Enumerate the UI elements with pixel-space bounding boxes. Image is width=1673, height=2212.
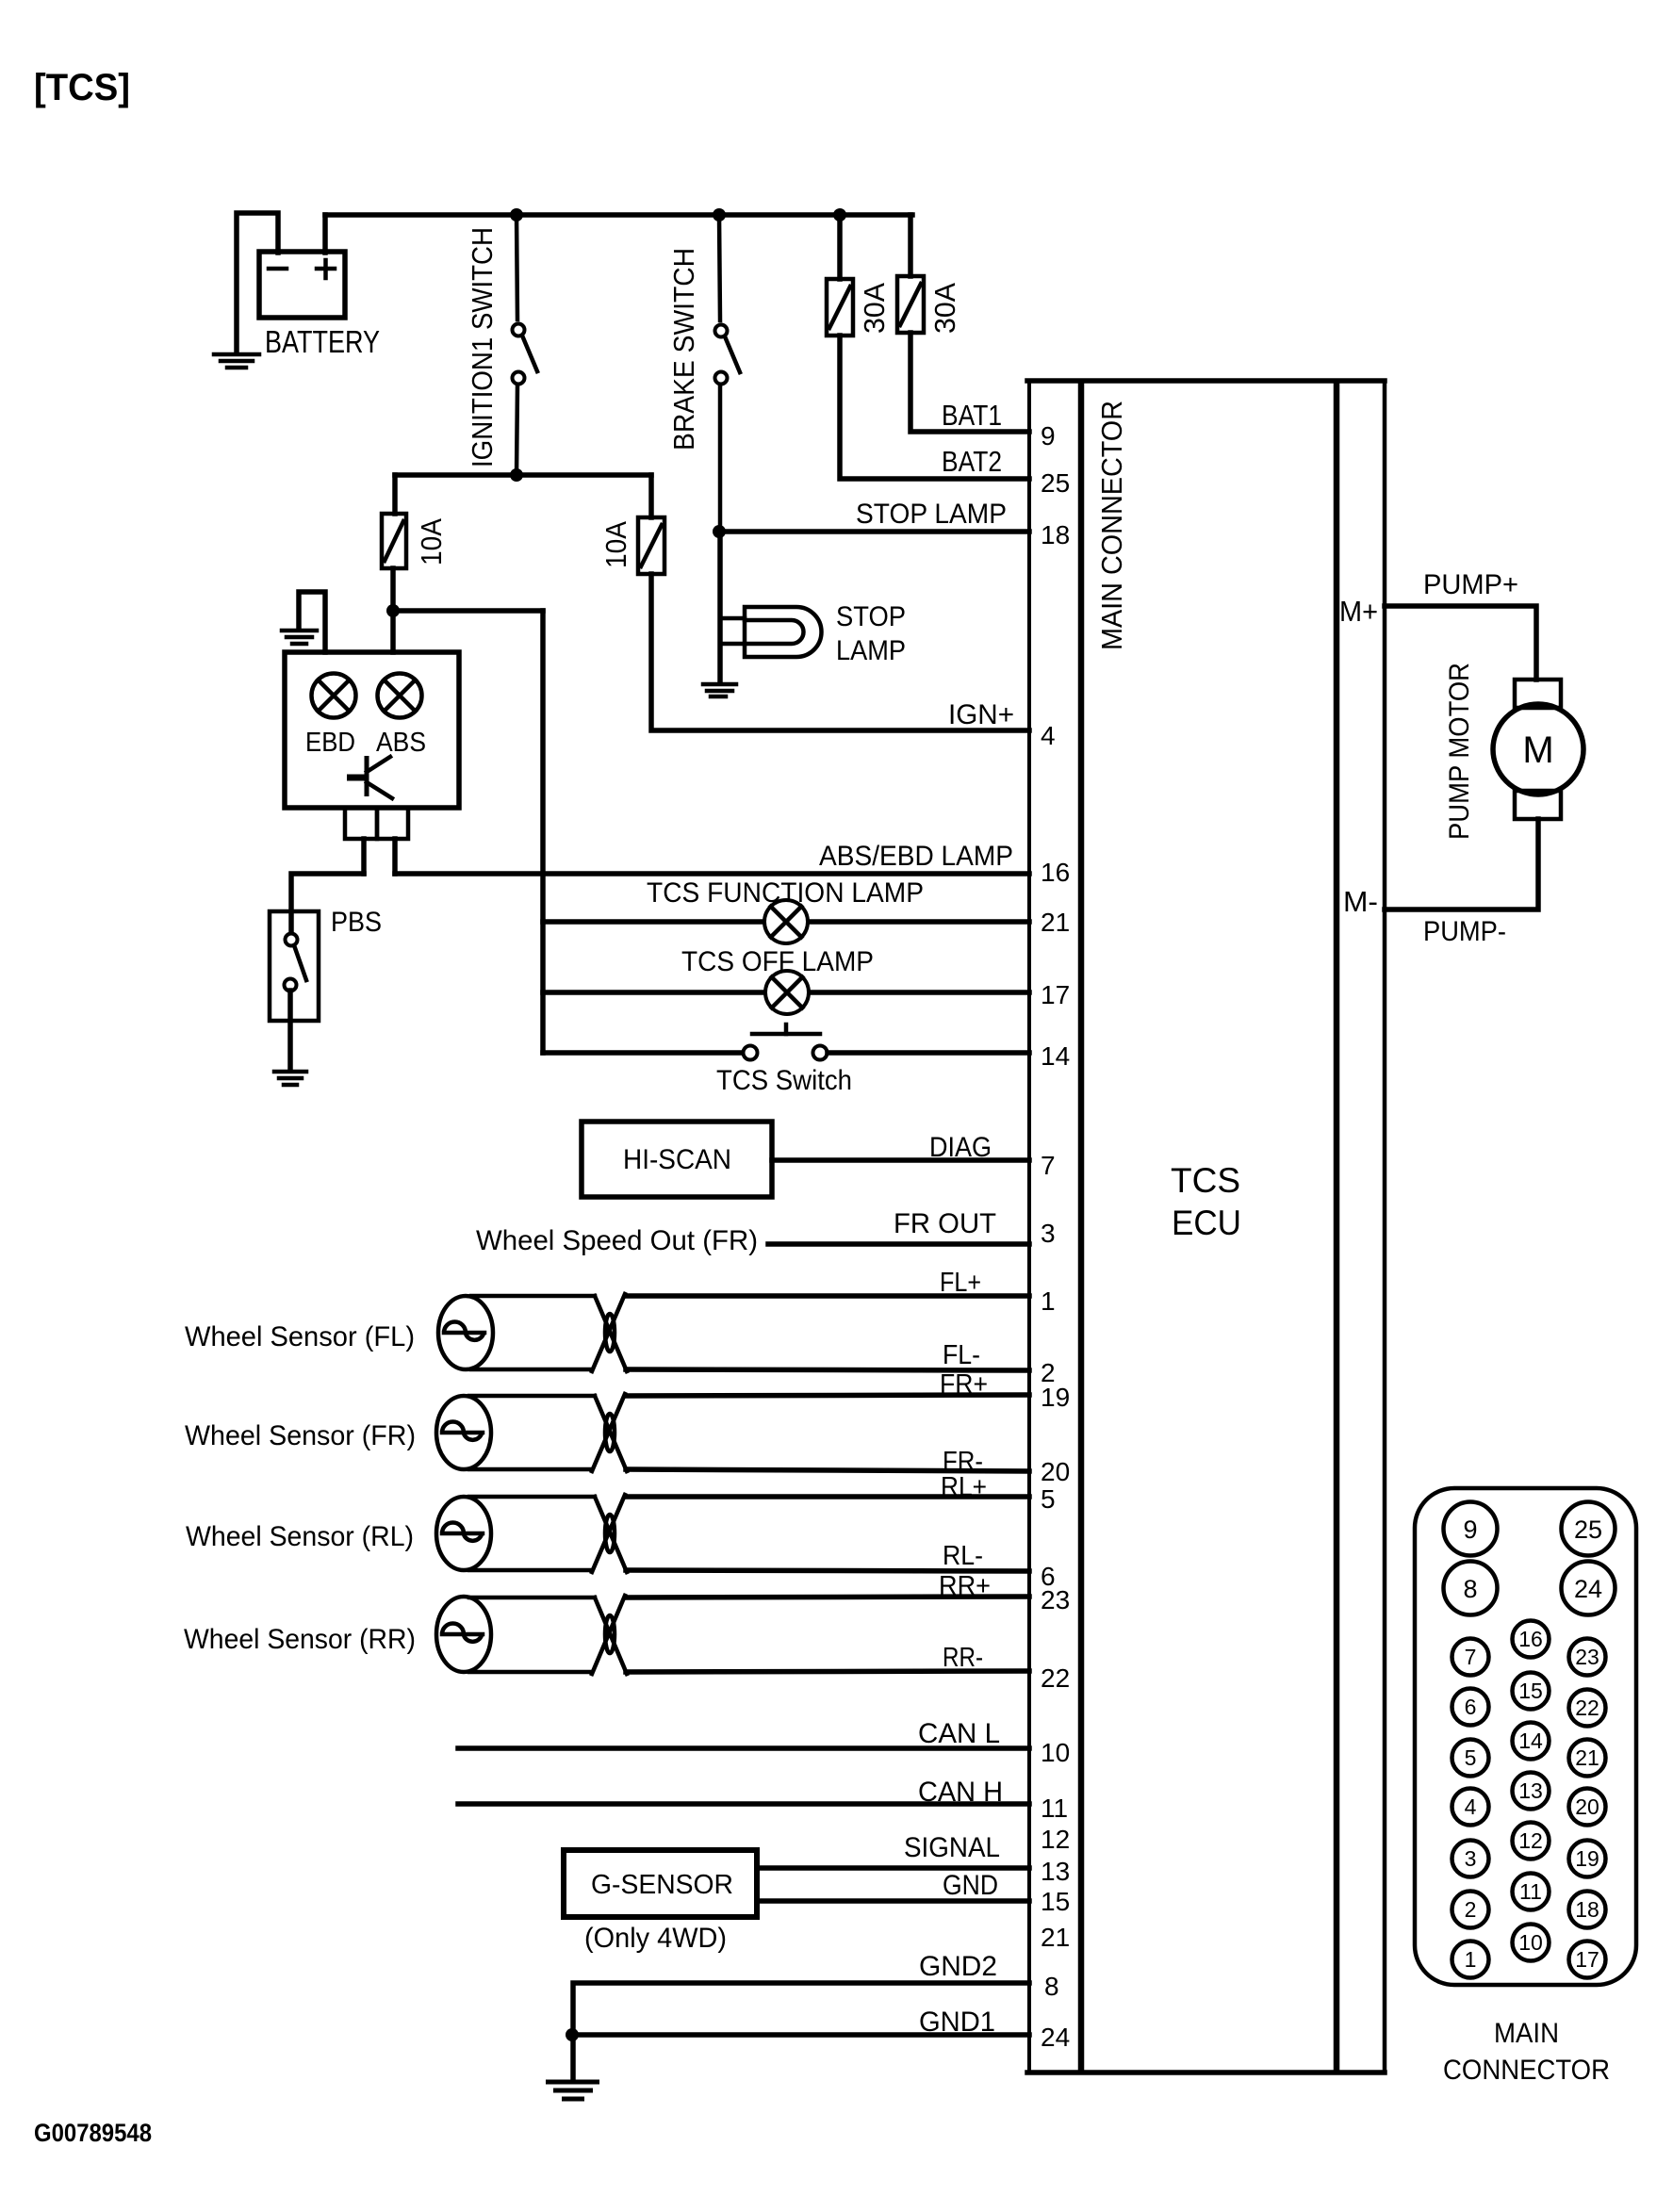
svg-text:30A: 30A [928, 283, 961, 334]
wire BAT2 fuse F1 to pin 25 [840, 336, 1029, 479]
svg-text:Wheel Sensor (FR): Wheel Sensor (FR) [185, 1420, 416, 1451]
svg-text:Wheel Sensor (FL): Wheel Sensor (FL) [185, 1321, 415, 1352]
svg-text:BATTERY: BATTERY [265, 324, 380, 359]
ground (ECU grounds) [546, 2082, 599, 2099]
svg-text:G00789548: G00789548 [34, 2119, 152, 2147]
pinout pin 21 [1569, 1740, 1606, 1777]
wire CAN H to pin 11 [458, 1801, 1029, 1807]
svg-text:4: 4 [1465, 1794, 1477, 1819]
wire fuse F3 to junction [390, 568, 396, 611]
svg-text:10A: 10A [415, 518, 448, 565]
svg-text:25: 25 [1574, 1516, 1602, 1544]
svg-text:BAT1: BAT1 [942, 399, 1002, 432]
junction top rail / brake switch [713, 208, 726, 221]
svg-text:RL-: RL- [943, 1541, 983, 1571]
svg-text:24: 24 [1041, 2023, 1070, 2052]
svg-text:20: 20 [1041, 1457, 1070, 1486]
svg-text:SIGNAL: SIGNAL [904, 1832, 1000, 1863]
svg-text:19: 19 [1575, 1846, 1599, 1871]
svg-text:HI-SCAN: HI-SCAN [623, 1144, 731, 1175]
pinout pin 10 [1513, 1925, 1550, 1961]
stop lamp bulb [745, 607, 822, 657]
junction top rail / ignition switch [510, 208, 523, 221]
svg-text:STOP LAMP: STOP LAMP [856, 499, 1007, 530]
svg-text:BAT2: BAT2 [942, 445, 1002, 478]
svg-text:17: 17 [1041, 980, 1070, 1009]
wire FR- to pin 20 [626, 1469, 1029, 1471]
pinout pin 25 [1562, 1502, 1616, 1556]
pinout pin 5 [1452, 1740, 1489, 1777]
pinout pin 9 [1444, 1502, 1498, 1556]
wire junction into lamp cluster [390, 611, 396, 652]
svg-text:18: 18 [1041, 520, 1070, 549]
wire stop lamp lead top [720, 616, 745, 621]
lamp cluster box [285, 652, 459, 808]
brake switch S2 [715, 215, 741, 532]
svg-text:13: 13 [1518, 1778, 1543, 1803]
svg-text:MAIN CONNECTOR: MAIN CONNECTOR [1095, 401, 1128, 650]
wire ABS/EBD LAMP to pin 16 [395, 871, 1029, 877]
wire top power rail [325, 212, 912, 218]
wire GND1 to pin 24 [572, 2032, 1029, 2038]
wire TCS switch left to pin 14 rail [543, 1050, 744, 1056]
svg-text:GND2: GND2 [919, 1951, 997, 1982]
svg-text:30A: 30A [858, 283, 891, 334]
svg-text:15: 15 [1518, 1679, 1543, 1703]
svg-text:CAN L: CAN L [918, 1718, 1000, 1749]
svg-text:ABS: ABS [376, 728, 426, 758]
wire RL- to pin 6 [626, 1570, 1029, 1571]
svg-text:STOP: STOP [836, 601, 906, 632]
pinout pin 7 [1452, 1639, 1489, 1676]
pinout pin 20 [1569, 1789, 1606, 1826]
svg-text:PUMP MOTOR: PUMP MOTOR [1444, 663, 1475, 840]
wire GND2 to pin 8 [573, 1983, 1029, 2081]
pinout pin 2 [1452, 1892, 1489, 1928]
wire RL+ to pin 5 [626, 1494, 1029, 1499]
pinout pin 13 [1513, 1773, 1550, 1810]
svg-text:CAN H: CAN H [918, 1777, 1003, 1808]
svg-text:MAIN: MAIN [1494, 2018, 1559, 2049]
svg-text:2: 2 [1465, 1897, 1477, 1922]
wire ignition feed rail [395, 472, 651, 478]
wire IGN+ fuse F4 to pin 4 [651, 574, 1029, 730]
svg-text:25: 25 [1041, 468, 1070, 498]
svg-text:Wheel Sensor (RL): Wheel Sensor (RL) [186, 1521, 414, 1552]
wire BAT1 fuse F2 to pin 9 [910, 333, 1029, 432]
svg-text:11: 11 [1041, 1794, 1068, 1823]
svg-text:PUMP+: PUMP+ [1423, 569, 1518, 600]
svg-text:3: 3 [1465, 1846, 1477, 1871]
svg-text:BRAKE SWITCH: BRAKE SWITCH [667, 248, 700, 451]
wire CAN L to pin 10 [458, 1745, 1029, 1751]
lamp ABS (circle with X) [378, 674, 422, 718]
wire FL- to pin 2 [626, 1369, 1029, 1370]
lamp cluster connector pin box left [345, 808, 377, 839]
svg-text:11: 11 [1519, 1879, 1542, 1904]
wire right pin down [392, 839, 398, 874]
svg-text:14: 14 [1518, 1729, 1543, 1753]
svg-text:10: 10 [1518, 1930, 1543, 1955]
wire left pin to PBS [291, 874, 364, 934]
svg-text:EBD: EBD [305, 728, 355, 758]
svg-text:9: 9 [1463, 1516, 1477, 1544]
svg-text:FL-: FL- [943, 1340, 980, 1370]
pinout pin 6 [1452, 1689, 1489, 1726]
pinout pin 24 [1562, 1562, 1616, 1615]
wire FR+ to pin 19 [626, 1395, 1029, 1396]
wire TCS feeder vertical [540, 611, 546, 1053]
svg-text:22: 22 [1575, 1696, 1599, 1720]
svg-text:23: 23 [1041, 1585, 1070, 1614]
wheel sensor (FR) body [436, 1396, 595, 1469]
svg-text:FR OUT: FR OUT [894, 1208, 996, 1239]
svg-text:5: 5 [1465, 1745, 1477, 1770]
wire fuse F1 drop [837, 215, 843, 279]
svg-text:PUMP-: PUMP- [1423, 916, 1506, 947]
svg-text:17: 17 [1575, 1947, 1599, 1972]
wire FL+ to pin 1 [626, 1293, 1029, 1299]
wire pump motor to M- [1385, 819, 1538, 909]
svg-text:16: 16 [1041, 858, 1070, 887]
twisted pair (RL) [592, 1495, 627, 1572]
svg-text:10A: 10A [599, 521, 632, 568]
pinout pin 14 [1513, 1723, 1550, 1760]
svg-text:M+: M+ [1339, 595, 1378, 628]
svg-text:Wheel Sensor (RR): Wheel Sensor (RR) [184, 1624, 416, 1655]
pinout pin 1 [1452, 1942, 1489, 1978]
svg-text:CONNECTOR: CONNECTOR [1443, 2055, 1610, 2086]
svg-text:(Only 4WD): (Only 4WD) [584, 1923, 727, 1954]
svg-text:1: 1 [1465, 1947, 1477, 1972]
svg-text:18: 18 [1575, 1897, 1599, 1922]
twisted pair (RR) [592, 1596, 627, 1674]
G-SENSOR box U3 [564, 1850, 757, 1917]
pinout pin 16 [1513, 1621, 1550, 1658]
svg-text:TCS: TCS [1171, 1161, 1240, 1200]
pump motor M1 [1493, 680, 1583, 819]
pinout pin 12 [1513, 1823, 1550, 1860]
svg-text:M-: M- [1343, 885, 1378, 918]
wire GND to pin 15 [757, 1898, 1029, 1904]
svg-text:14: 14 [1041, 1041, 1070, 1071]
pinout pin 8 [1444, 1562, 1498, 1615]
wire battery positive up [322, 215, 328, 253]
svg-text:4: 4 [1041, 721, 1056, 750]
fuse F3 10A [382, 514, 406, 568]
svg-text:23: 23 [1575, 1645, 1599, 1669]
wire TCS OFF LAMP to pin 17 [543, 990, 1029, 995]
wire M+ to pump motor [1385, 606, 1536, 680]
wire lamp cluster ground hook [299, 592, 325, 652]
pinout pin 15 [1513, 1673, 1550, 1710]
svg-text:M: M [1522, 729, 1553, 771]
svg-text:24: 24 [1574, 1575, 1602, 1603]
svg-text:5: 5 [1041, 1484, 1056, 1514]
battery B1 [259, 252, 345, 318]
wire STOP LAMP node to pin 18 [719, 529, 1029, 534]
svg-text:3: 3 [1041, 1219, 1056, 1248]
fuse F4 10A [638, 517, 664, 574]
svg-text:ABS/EBD LAMP: ABS/EBD LAMP [819, 841, 1013, 872]
junction ignition switch bottom [510, 468, 523, 482]
PBS switch contacts [285, 934, 307, 991]
label STOP LAMP (bulb) [836, 601, 906, 666]
ground (lamp cluster) [282, 631, 317, 644]
pinout pin 17 [1569, 1942, 1606, 1978]
svg-text:6: 6 [1465, 1695, 1477, 1719]
svg-text:10: 10 [1041, 1738, 1070, 1767]
wire PBS to ground [287, 991, 293, 1071]
svg-text:8: 8 [1463, 1575, 1477, 1603]
lamp TCS OFF (circle with X) [765, 971, 809, 1014]
svg-text:22: 22 [1041, 1663, 1070, 1693]
wire TCS switch right to pin 14 [828, 1050, 1029, 1056]
lamp EBD (circle with X) [312, 674, 356, 718]
wire stop lamp branch down [717, 532, 723, 683]
TCS ECU block outline [1027, 381, 1385, 2073]
svg-text:7: 7 [1041, 1151, 1056, 1180]
pinout pin 22 [1569, 1690, 1606, 1727]
main connector pinout drawing [1415, 1488, 1636, 1985]
wire junction to TCS feeder [393, 608, 543, 614]
ground (battery) [214, 354, 259, 368]
svg-text:RR+: RR+ [939, 1571, 991, 1601]
svg-text:RL+: RL+ [941, 1472, 987, 1502]
label TCS ECU [1171, 1161, 1241, 1242]
transistor Q1 (cluster driver) [347, 756, 392, 798]
svg-text:ECU: ECU [1172, 1204, 1241, 1242]
svg-text:G-SENSOR: G-SENSOR [591, 1870, 733, 1900]
svg-text:FL+: FL+ [940, 1268, 981, 1298]
svg-text:LAMP: LAMP [836, 635, 906, 666]
svg-text:21: 21 [1575, 1745, 1599, 1770]
wire FR OUT to pin 3 [768, 1241, 1029, 1247]
wire stop lamp lead bottom [720, 642, 745, 647]
junction top rail / fuse F1 [833, 208, 846, 221]
wheel sensor (RL) body [436, 1497, 595, 1570]
wire feed rail to fuse F3 [392, 475, 398, 514]
svg-text:12: 12 [1518, 1828, 1543, 1853]
svg-text:9: 9 [1041, 421, 1056, 451]
svg-text:15: 15 [1041, 1887, 1070, 1916]
lamp TCS FUNCTION (circle with X) [764, 900, 808, 943]
svg-text:IGNITION1 SWITCH: IGNITION1 SWITCH [466, 227, 499, 467]
ground (stop lamp) [703, 684, 736, 696]
svg-text:8: 8 [1044, 1972, 1059, 2001]
svg-text:1: 1 [1041, 1286, 1056, 1316]
wheel sensor (FL) body [438, 1296, 595, 1369]
svg-text:7: 7 [1465, 1645, 1477, 1669]
PBS box [270, 911, 319, 1021]
junction brake switch / stop lamp node [713, 525, 726, 538]
wire feed rail to fuse F4 [648, 475, 654, 517]
wheel sensor (RR) body [436, 1597, 595, 1672]
svg-text:Wheel Speed Out (FR): Wheel Speed Out (FR) [476, 1225, 758, 1256]
svg-text:12: 12 [1041, 1825, 1070, 1854]
TCS switch pushbutton [744, 1024, 828, 1060]
wire SIGNAL to pin 13 [757, 1865, 1029, 1871]
twisted pair (FL) [592, 1294, 627, 1371]
svg-text:21: 21 [1041, 1923, 1070, 1952]
pinout pin 19 [1569, 1841, 1606, 1877]
wire DIAG to pin 7 [772, 1157, 1029, 1163]
ground (PBS) [274, 1072, 306, 1085]
wire TCS FUNCTION LAMP to pin 21 [543, 919, 1029, 925]
svg-text:20: 20 [1575, 1794, 1599, 1819]
junction lamp cluster feed [386, 604, 400, 617]
fuse F2 30A [897, 276, 924, 333]
pinout pin 18 [1569, 1892, 1606, 1928]
wire top rail to fuse F2 [908, 215, 913, 276]
svg-text:FR+: FR+ [940, 1369, 988, 1400]
svg-text:GND1: GND1 [919, 2007, 995, 2038]
svg-text:[TCS]: [TCS] [34, 67, 130, 108]
fuse F1 30A [827, 279, 853, 336]
wire RR+ to pin 23 [626, 1597, 1029, 1598]
pinout pin 23 [1569, 1639, 1606, 1676]
wire left pin down [361, 839, 367, 874]
pinout pin 11 [1513, 1874, 1550, 1910]
svg-text:GND: GND [943, 1870, 998, 1901]
svg-text:19: 19 [1041, 1383, 1070, 1412]
pinout pin 3 [1452, 1841, 1489, 1877]
svg-text:16: 16 [1518, 1627, 1543, 1651]
svg-text:TCS Switch: TCS Switch [716, 1065, 852, 1096]
svg-text:21: 21 [1041, 908, 1070, 937]
pinout pin 4 [1452, 1789, 1489, 1826]
wire RR- to pin 22 [626, 1671, 1029, 1672]
junction GND1 [566, 2028, 579, 2041]
lamp cluster connector pin box right [377, 808, 408, 839]
svg-text:RR-: RR- [943, 1643, 983, 1673]
svg-text:13: 13 [1041, 1857, 1070, 1886]
ignition switch S1 [513, 215, 538, 475]
HI-SCAN box U2 [582, 1122, 772, 1197]
wire battery negative to ground [237, 213, 278, 352]
svg-text:IGN+: IGN+ [948, 699, 1014, 730]
svg-text:DIAG: DIAG [929, 1132, 992, 1163]
twisted pair (FR) [592, 1394, 627, 1471]
svg-text:PBS: PBS [331, 907, 382, 938]
